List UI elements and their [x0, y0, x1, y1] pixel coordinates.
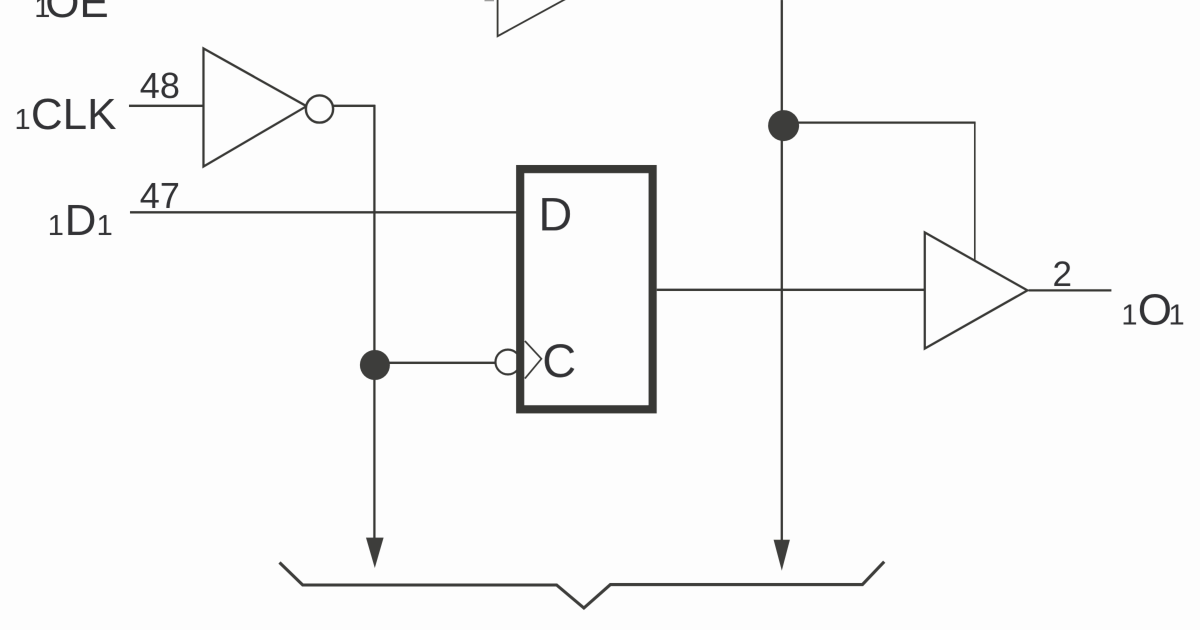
svg-text:C: C [542, 334, 576, 387]
svg-text:OE: OE [45, 0, 109, 27]
svg-text:D: D [65, 196, 97, 245]
svg-text:O: O [1138, 286, 1172, 335]
svg-text:1: 1 [15, 104, 31, 136]
svg-text:D: D [538, 187, 572, 240]
svg-text:2: 2 [1053, 255, 1072, 294]
svg-text:1: 1 [1121, 300, 1137, 332]
svg-text:1: 1 [48, 210, 64, 242]
svg-text:1: 1 [97, 210, 113, 242]
svg-text:1: 1 [1169, 300, 1185, 332]
svg-text:47: 47 [140, 175, 180, 216]
svg-text:CLK: CLK [31, 90, 117, 139]
svg-text:48: 48 [140, 65, 180, 106]
